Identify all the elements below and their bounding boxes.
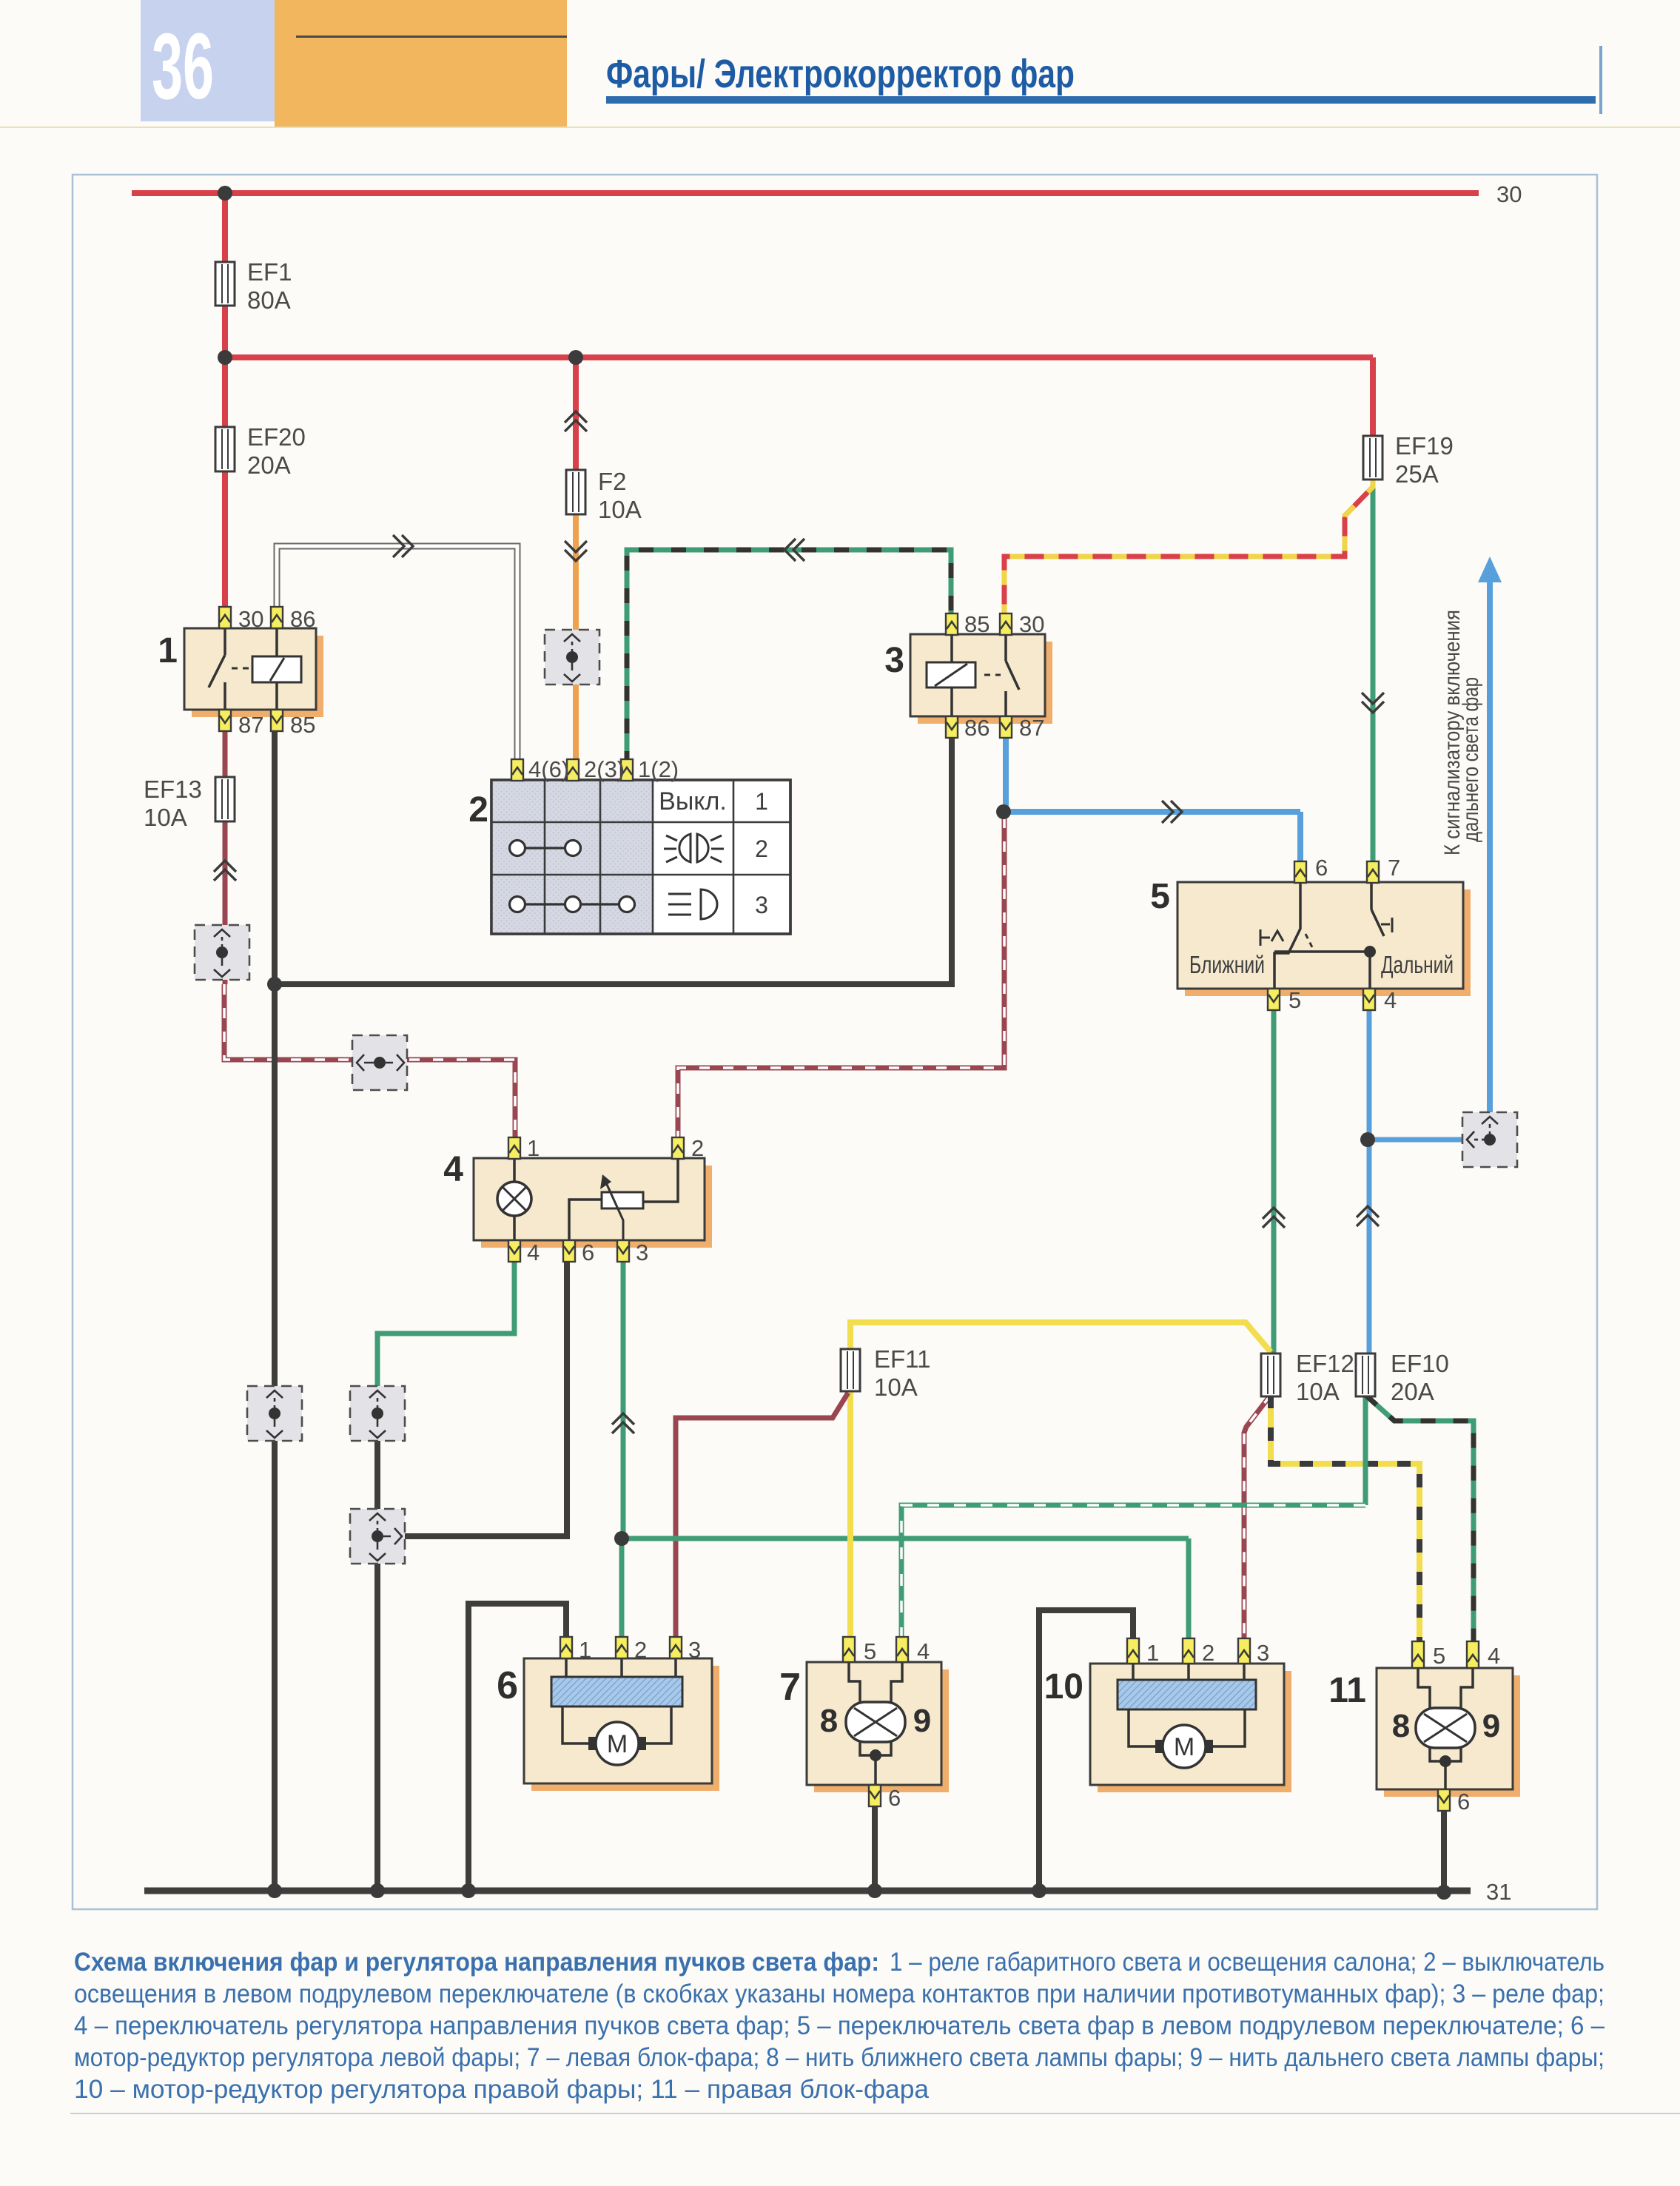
svg-text:20A: 20A bbox=[247, 451, 291, 479]
svg-text:10A: 10A bbox=[598, 496, 642, 523]
svg-text:11: 11 bbox=[1328, 1671, 1366, 1710]
svg-text:3: 3 bbox=[755, 892, 768, 918]
svg-text:85: 85 bbox=[290, 712, 315, 738]
svg-text:25A: 25A bbox=[1395, 460, 1439, 488]
svg-text:1: 1 bbox=[579, 1637, 591, 1663]
svg-text:8: 8 bbox=[1392, 1708, 1410, 1744]
svg-text:5: 5 bbox=[1433, 1643, 1445, 1669]
svg-text:31: 31 bbox=[1486, 1879, 1511, 1905]
svg-text:4(6): 4(6) bbox=[528, 756, 569, 782]
svg-text:30: 30 bbox=[1019, 611, 1044, 637]
svg-text:M: M bbox=[607, 1730, 628, 1758]
svg-text:дальнего света фар: дальнего света фар bbox=[1459, 677, 1483, 842]
svg-text:5: 5 bbox=[1150, 877, 1170, 916]
svg-text:86: 86 bbox=[964, 715, 989, 741]
svg-text:2: 2 bbox=[1202, 1640, 1214, 1666]
svg-text:1(2): 1(2) bbox=[638, 756, 679, 782]
svg-text:10 – мотор-редуктор регулятора: 10 – мотор-редуктор регулятора правой фа… bbox=[74, 2075, 930, 2104]
svg-text:F2: F2 bbox=[598, 468, 627, 495]
svg-text:80A: 80A bbox=[247, 286, 291, 314]
svg-text:30: 30 bbox=[238, 606, 263, 632]
svg-text:36: 36 bbox=[152, 14, 214, 118]
svg-text:мотор-редуктор регулятора лево: мотор-редуктор регулятора левой фары; 7 … bbox=[74, 2043, 1605, 2072]
svg-text:86: 86 bbox=[290, 606, 315, 632]
svg-text:10A: 10A bbox=[874, 1373, 918, 1401]
svg-text:3: 3 bbox=[884, 641, 904, 680]
svg-text:7: 7 bbox=[1388, 855, 1400, 881]
svg-text:Дальний: Дальний bbox=[1381, 951, 1454, 978]
svg-text:9: 9 bbox=[1482, 1708, 1500, 1744]
svg-text:6: 6 bbox=[1457, 1789, 1470, 1815]
svg-text:4: 4 bbox=[1384, 987, 1397, 1013]
svg-text:5: 5 bbox=[864, 1638, 876, 1664]
svg-text:1: 1 bbox=[527, 1135, 540, 1161]
svg-text:5: 5 bbox=[1288, 987, 1301, 1013]
svg-text:85: 85 bbox=[964, 611, 989, 637]
svg-text:EF12: EF12 bbox=[1296, 1350, 1354, 1377]
svg-text:8: 8 bbox=[820, 1703, 838, 1739]
svg-text:10: 10 bbox=[1044, 1667, 1083, 1706]
svg-text:4: 4 bbox=[527, 1240, 540, 1265]
svg-text:30: 30 bbox=[1496, 181, 1522, 207]
svg-text:3: 3 bbox=[1257, 1640, 1269, 1666]
svg-text:6: 6 bbox=[888, 1785, 901, 1811]
svg-text:6: 6 bbox=[1315, 855, 1328, 881]
svg-text:1 – реле габаритного света и о: 1 – реле габаритного света и освещения с… bbox=[890, 1948, 1605, 1977]
svg-text:EF20: EF20 bbox=[247, 423, 306, 451]
svg-text:Ближний: Ближний bbox=[1189, 951, 1265, 978]
svg-text:2: 2 bbox=[755, 835, 768, 862]
svg-text:10A: 10A bbox=[1296, 1378, 1340, 1405]
svg-text:2(3): 2(3) bbox=[584, 756, 625, 782]
svg-text:M: M bbox=[1174, 1733, 1195, 1761]
svg-text:6: 6 bbox=[582, 1240, 594, 1265]
svg-text:2: 2 bbox=[634, 1637, 647, 1663]
svg-text:EF13: EF13 bbox=[144, 776, 202, 803]
svg-text:4: 4 bbox=[443, 1150, 463, 1189]
svg-text:10A: 10A bbox=[144, 804, 187, 831]
svg-text:3: 3 bbox=[636, 1240, 648, 1265]
svg-text:7: 7 bbox=[779, 1666, 801, 1709]
svg-text:2: 2 bbox=[468, 790, 488, 830]
svg-text:EF11: EF11 bbox=[874, 1345, 930, 1373]
svg-text:освещения в левом подрулевом п: освещения в левом подрулевом переключате… bbox=[74, 1980, 1605, 2008]
svg-text:6: 6 bbox=[497, 1664, 518, 1707]
svg-text:1: 1 bbox=[755, 788, 768, 815]
svg-text:1: 1 bbox=[1146, 1640, 1159, 1666]
svg-text:4: 4 bbox=[917, 1638, 930, 1664]
svg-text:EF19: EF19 bbox=[1395, 432, 1454, 460]
svg-text:87: 87 bbox=[1019, 715, 1044, 741]
svg-text:2: 2 bbox=[691, 1135, 704, 1161]
svg-text:4 – переключатель регулятора н: 4 – переключатель регулятора направления… bbox=[74, 2011, 1605, 2040]
svg-text:1: 1 bbox=[158, 631, 178, 670]
svg-text:Фары/ Электрокорректор фар: Фары/ Электрокорректор фар bbox=[606, 52, 1075, 96]
svg-text:Схема включения фар и регулято: Схема включения фар и регулятора направл… bbox=[74, 1948, 879, 1977]
svg-text:EF1: EF1 bbox=[247, 258, 292, 286]
svg-text:Выкл.: Выкл. bbox=[659, 787, 727, 815]
svg-text:4: 4 bbox=[1488, 1643, 1500, 1669]
svg-text:3: 3 bbox=[688, 1637, 701, 1663]
svg-text:9: 9 bbox=[913, 1703, 931, 1739]
svg-text:20A: 20A bbox=[1391, 1378, 1434, 1405]
svg-text:87: 87 bbox=[238, 712, 263, 738]
svg-text:EF10: EF10 bbox=[1391, 1350, 1449, 1377]
